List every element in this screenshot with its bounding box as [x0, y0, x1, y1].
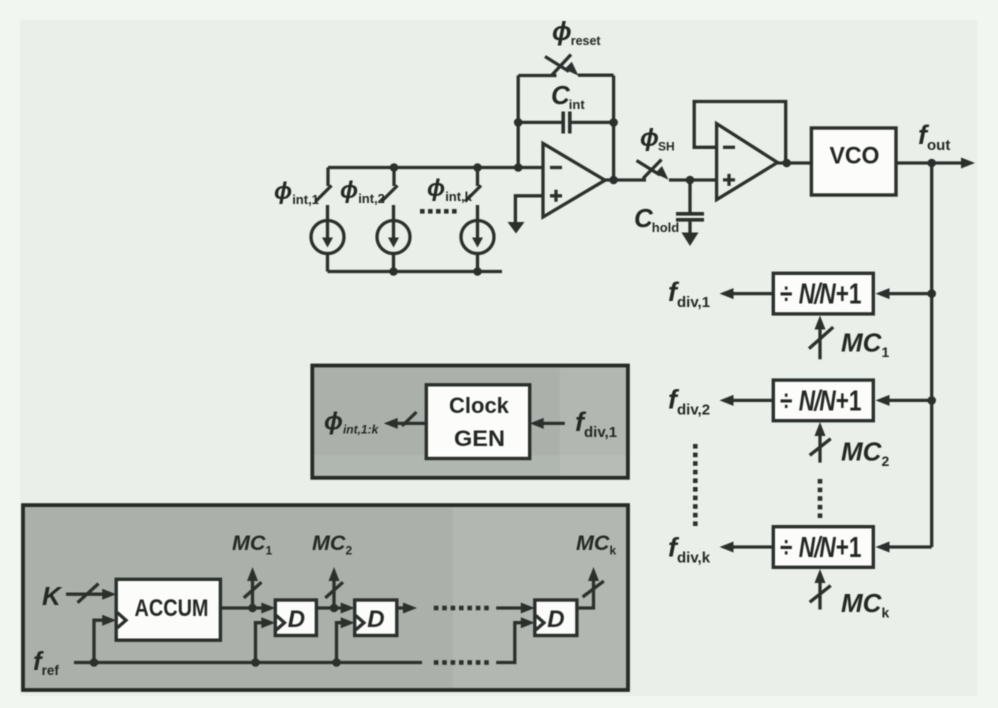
- switch phi_SH: [637, 160, 669, 180]
- wire D3 output MCk arrow bus: [577, 567, 604, 608]
- svg-text:÷ N/N+1: ÷ N/N+1: [780, 530, 862, 563]
- ellipsis dots data path: [434, 606, 489, 611]
- label MC_2: [841, 437, 889, 470]
- wire U1 output to switch phi_SH: [605, 178, 646, 181]
- label MC_1: [841, 328, 889, 361]
- svg-text:Clock: Clock: [449, 393, 510, 418]
- wire D1 output to D2: [316, 603, 354, 614]
- wire feedback top with switch gap: [518, 74, 613, 78]
- wire Clock GEN output arrow phi_int bus: [384, 412, 427, 429]
- block ACCUM: [116, 579, 220, 640]
- ground at U1 plus input: [508, 222, 525, 234]
- wire input rail to integrator minus input: [328, 166, 543, 169]
- label f_div,1: [668, 277, 710, 311]
- svg-text:K: K: [42, 581, 63, 611]
- wire f_out feedback vertical to dividers: [930, 163, 933, 547]
- pin D1 clock wedge: [276, 616, 284, 630]
- svg-text:ACCUM: ACCUM: [135, 595, 209, 622]
- wire bottom rail of current sources: [328, 270, 503, 273]
- label K input: [42, 581, 63, 611]
- wire feedback left vertical: [517, 76, 520, 168]
- wire MC2 output arrow bus: [325, 567, 343, 608]
- wire switch phi_SH to U2 plus input: [669, 178, 717, 181]
- block accumulator outer panel: [23, 505, 628, 690]
- wire divider1 output arrow: [720, 288, 774, 299]
- capacitor C_int: [518, 112, 613, 134]
- label f_div,k: [668, 533, 711, 567]
- junction U1 output node: [609, 176, 618, 185]
- op-amp U1 integrator: [543, 143, 605, 217]
- current source I1: [311, 205, 344, 272]
- wire MC1 control arrow: [809, 316, 833, 360]
- wire f_ref to D1 clock: [256, 617, 276, 662]
- junction f_ref / D1 clock riser: [251, 658, 260, 667]
- wire D2 output arrow: [397, 603, 417, 614]
- svg-text:VCO: VCO: [830, 143, 880, 170]
- flip-flop D2: [355, 600, 397, 636]
- divider DIV2 N/N+1: [773, 380, 873, 421]
- junction feedback left / input rail: [514, 163, 523, 172]
- svg-text:D: D: [367, 606, 384, 633]
- svg-text:GEN: GEN: [454, 426, 505, 451]
- label MC_k: [841, 588, 889, 621]
- switch phi_reset: [545, 55, 579, 76]
- block Clock GEN outer panel: [312, 366, 628, 478]
- wire feedback right vertical: [612, 76, 615, 181]
- ground at C_hold: [682, 233, 699, 247]
- wire f_div,1 input arrow to Clock GEN: [530, 418, 565, 429]
- wire MC1 output arrow bus: [244, 567, 262, 608]
- junction input rail / switch S2: [390, 163, 399, 172]
- wire U2 output to VCO: [778, 161, 812, 164]
- wire divider2 input arrow: [876, 395, 932, 406]
- label f_div,2: [668, 385, 710, 419]
- current source I2: [377, 205, 410, 272]
- junction divider2 input: [927, 396, 936, 405]
- label phi_SH: [640, 124, 675, 154]
- switch S1 phi_int,1: [316, 168, 332, 202]
- svg-text:÷ N/N+1: ÷ N/N+1: [780, 277, 862, 310]
- wire f_ref to D2 clock: [337, 617, 355, 662]
- junction C_int right: [609, 118, 618, 127]
- wire U2 feedback loop output to minus input: [694, 102, 786, 164]
- ellipsis dots left column (more dividers): [693, 444, 698, 526]
- wire K input arrow bus: [66, 584, 116, 603]
- label C_hold: [634, 203, 679, 235]
- wire data path into D3: [496, 603, 535, 614]
- ellipsis dots middle column (more MC controls): [818, 479, 823, 518]
- flip-flop D1: [275, 600, 316, 636]
- wire MCk control arrow: [810, 569, 831, 610]
- wire U1 plus input to ground: [515, 196, 543, 223]
- wire f_ref to ACCUM clock: [94, 615, 116, 663]
- ellipsis dots f_ref rail: [434, 660, 489, 665]
- junction bottom rail I2: [389, 267, 398, 276]
- svg-text:D: D: [547, 606, 564, 633]
- junction f_ref / D2 clock riser: [332, 658, 341, 667]
- junction U2 output node: [782, 159, 791, 168]
- label f_div,1 at Clock GEN: [575, 407, 617, 441]
- junction C_int left: [514, 118, 523, 127]
- switch Sk phi_int,k: [465, 168, 481, 202]
- label phi_int,1:k: [324, 408, 380, 437]
- label MC_k bottom: [576, 531, 616, 558]
- flip-flop D3: [535, 600, 577, 636]
- label f_out: [918, 120, 950, 154]
- wire MC2 control arrow: [810, 422, 831, 463]
- wire divider3 output arrow: [720, 542, 774, 553]
- junction ACCUM output / MC1 tap: [248, 604, 257, 613]
- label phi_int,2: [340, 177, 385, 206]
- label phi_reset: [552, 16, 601, 48]
- junction C_hold node: [686, 176, 695, 185]
- switch S2 phi_int,2: [382, 168, 398, 202]
- wire ACCUM output to D1: [220, 603, 275, 614]
- capacitor C_hold: [676, 180, 704, 233]
- wire divider3 input arrow: [876, 542, 932, 553]
- wire VCO output f_out with arrow: [896, 158, 975, 169]
- label phi_int,k: [427, 175, 473, 204]
- block Clock GEN: [426, 385, 529, 459]
- wire divider1 input arrow: [876, 288, 932, 299]
- wire divider2 output arrow: [720, 395, 774, 406]
- junction divider1 input: [927, 289, 936, 298]
- current source Ik: [461, 205, 494, 272]
- divider DIV1 N/N+1: [773, 273, 873, 314]
- svg-text:D: D: [288, 606, 305, 633]
- label MC_1 bottom: [232, 531, 272, 558]
- label MC_2 bottom: [312, 531, 352, 558]
- junction input rail / switch Sk: [473, 163, 482, 172]
- label C_int: [551, 80, 585, 112]
- ellipsis dots (more input branches): [420, 209, 457, 214]
- svg-text:÷ N/N+1: ÷ N/N+1: [780, 384, 862, 417]
- pin D2 clock wedge: [356, 616, 364, 630]
- divider DIV3 N/N+1: [773, 527, 873, 568]
- pin D3 clock wedge: [536, 616, 544, 630]
- block VCO: [811, 128, 896, 195]
- pin ACCUM clock wedge: [117, 613, 126, 628]
- wire f_ref to D3 clock: [496, 617, 535, 662]
- label phi_int,1: [274, 178, 319, 207]
- junction bottom rail Ik: [473, 267, 482, 276]
- junction node f_out: [927, 159, 936, 168]
- op-amp U2 buffer: [717, 124, 778, 200]
- label f_ref: [33, 646, 59, 678]
- junction f_ref / ACCUM clock riser: [90, 658, 99, 667]
- junction D1 output / MC2 tap: [330, 604, 339, 613]
- wire f_ref rail: [74, 661, 422, 664]
